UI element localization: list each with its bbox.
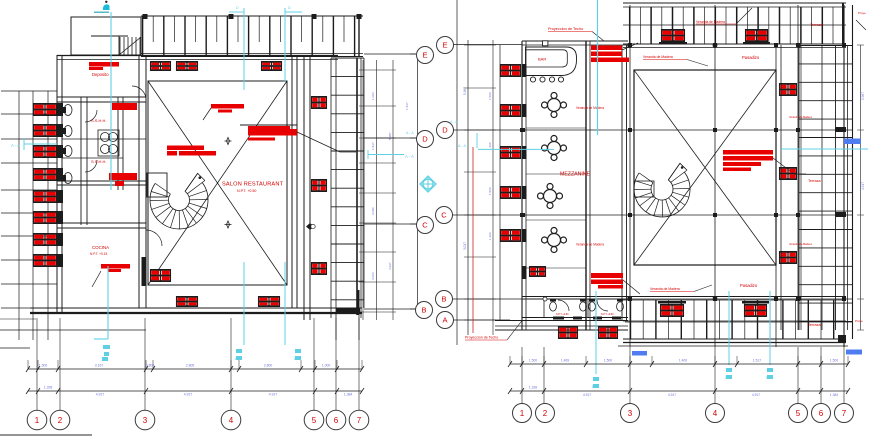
window symbol top row 3: [261, 61, 282, 71]
svg-text:3.000: 3.000: [371, 272, 375, 280]
right plan: spiral staircase: [634, 163, 690, 217]
svg-text:E: E: [422, 51, 427, 60]
right plan: cyan A-A horizontal: [458, 133, 554, 149]
salon center mark lower: [225, 221, 232, 228]
svg-text:6: 6: [819, 409, 824, 418]
top band veranda label: [696, 8, 752, 24]
left plan: building outer walls: [30, 55, 362, 315]
deposito red furniture bars: [89, 62, 119, 70]
right plan: mezzanine block walls: [495, 41, 628, 330]
svg-text:1.517: 1.517: [371, 142, 375, 150]
svg-text:Veranda de Madera: Veranda de Madera: [696, 20, 725, 24]
bottom cyan D-D marker 1: [235, 349, 242, 361]
top right proyeccion fragment: [856, 11, 866, 30]
mezzanine table 2: [542, 136, 567, 161]
left plan: cyan section line D-D right: [285, 6, 302, 345]
svg-text:BAR: BAR: [538, 57, 546, 62]
svg-text:A: A: [442, 316, 447, 325]
bubble D right stub: [454, 129, 523, 131]
bubble B left: [416, 302, 433, 319]
right plan window symbol lower left: [529, 266, 546, 277]
mezzanine table 3: [538, 184, 563, 209]
svg-text:N.P.T +0.80: N.P.T +0.80: [601, 313, 614, 316]
svg-text:3.080: 3.080: [371, 207, 375, 215]
grid bubble 7 (left plan): [349, 410, 369, 430]
svg-text:SALON RESTAURANT: SALON RESTAURANT: [222, 182, 284, 188]
svg-text:1.300: 1.300: [488, 142, 492, 150]
grid bubble 1 (left plan): [27, 410, 47, 430]
bottom page border fragment: [0, 434, 92, 436]
right plan: red dimension vertical: [472, 147, 474, 333]
right plan window symbol left col 5: [500, 229, 521, 242]
window symbol left col row 2: [33, 124, 57, 137]
left plan: cyan section line D-D left: [229, 6, 244, 345]
cocina label: [90, 245, 109, 256]
veranda de madera label 2: [576, 243, 604, 247]
left plan: grid drop lines: [37, 318, 359, 410]
bottom band window base bars: [658, 301, 769, 304]
mezzanine table 4: [542, 228, 567, 253]
svg-text:D: D: [442, 126, 448, 135]
row bubble E (left plan): [410, 53, 416, 55]
svg-text:3: 3: [143, 416, 148, 425]
left plan: door swing arcs: [85, 86, 162, 246]
window symbol left col row 5: [33, 190, 57, 203]
svg-text:4.917: 4.917: [388, 262, 392, 270]
east cyan A-A line: [781, 148, 868, 150]
svg-text:Proyeccion de Techo: Proyeccion de Techo: [548, 27, 583, 31]
window symbol below bathroom 1: [558, 326, 578, 339]
right wall window symbol 3: [779, 251, 797, 264]
svg-text:0.800: 0.800: [146, 364, 155, 368]
cocina cyan line: [94, 266, 110, 361]
right plan: bathroom block bottom: [495, 297, 628, 321]
bubble E right: [437, 37, 454, 54]
svg-text:1.328: 1.328: [44, 386, 53, 390]
right plan: bright blue highlight bars: [632, 139, 862, 356]
bubble B left stub: [410, 308, 416, 310]
east side dimension line: [857, 45, 865, 330]
right plan window symbol left col 3: [500, 146, 521, 159]
grid node marker row C on wall: [306, 223, 315, 230]
svg-text:1.000: 1.000: [371, 92, 375, 100]
svg-text:COCINA: COCINA: [92, 245, 109, 250]
svg-text:Veranda de Madera: Veranda de Madera: [643, 55, 673, 59]
svg-text:1.500: 1.500: [39, 364, 48, 368]
svg-text:N.P.T +0.80: N.P.T +0.80: [556, 313, 569, 316]
right dim chain 2 values: [529, 386, 838, 398]
services red bar lower: [109, 173, 137, 186]
right plan: cyan section bottom D-D 1: [725, 291, 732, 380]
svg-text:Pasadizo: Pasadizo: [742, 55, 760, 60]
svg-text:Veranda de Madera: Veranda de Madera: [650, 287, 680, 291]
dim chain 2 values: [44, 386, 353, 397]
top band window symbol 2: [745, 29, 768, 42]
svg-text:Proyeccion de Techo: Proyeccion de Techo: [465, 336, 498, 340]
right plan: proyeccion de techo top label: [548, 27, 604, 41]
right plan: pasadizo corridor west walls: [622, 45, 627, 320]
svg-text:1.469: 1.469: [561, 359, 569, 363]
svg-text:1.384: 1.384: [344, 393, 353, 397]
svg-text:1.517: 1.517: [405, 102, 409, 110]
right plan: central square with diagonals: [634, 70, 776, 265]
svg-text:Veranda de Madera: Veranda de Madera: [789, 115, 812, 119]
right plan: bottom red bar cluster: [591, 273, 640, 294]
right plan: main grid horizontals: [522, 130, 852, 322]
svg-text:C: C: [422, 221, 428, 230]
bathroom red npt labels: [556, 313, 614, 316]
right plan: top red bar cluster: [591, 43, 638, 62]
svg-text:Veranda de Madera: Veranda de Madera: [576, 106, 604, 110]
svg-text:Veranda de Madera: Veranda de Madera: [576, 243, 604, 247]
bubble E left: [417, 47, 434, 64]
grid bubble 1 (right plan): [513, 404, 532, 423]
bottom band window symbol 2: [744, 304, 767, 317]
cyan section A-A left label: [11, 138, 57, 150]
bottom cyan D-D marker 2: [294, 349, 301, 361]
right wall window symbol 2: [779, 167, 797, 180]
svg-text:D: D: [422, 135, 428, 144]
svg-text:D: D: [236, 6, 239, 10]
svg-text:1.517: 1.517: [753, 359, 761, 363]
right plan: middle red bar cluster: [723, 150, 806, 174]
svg-text:5: 5: [796, 409, 801, 418]
right plan: veranda bottom label: [650, 285, 712, 292]
svg-text:4.917: 4.917: [668, 393, 676, 397]
svg-text:1.500: 1.500: [604, 359, 612, 363]
left plan: salon walls: [139, 55, 310, 320]
svg-text:4.917: 4.917: [184, 393, 193, 397]
bottom cyan B-B marker: [102, 357, 108, 361]
svg-text:4.917: 4.917: [269, 393, 278, 397]
left plan: top deck band (terrace boardwalk): [141, 14, 363, 57]
left plan: cyan section line B (vertical at kitchen axis): [94, 1, 111, 190]
salon spiral landing rect: [147, 173, 167, 197]
right plan window symbol left col 4: [500, 186, 521, 199]
svg-text:1.384: 1.384: [830, 393, 838, 397]
svg-text:2.805: 2.805: [186, 364, 195, 368]
svg-text:A - A: A - A: [458, 144, 466, 148]
proyeccion de techo label (bottom left of right plan): [465, 321, 522, 341]
right plan: veranda west edge line: [499, 45, 501, 320]
right plan: bottom dimension chain 2: [508, 388, 850, 394]
window symbol left col row 1: [33, 103, 57, 116]
cyan A-A small labels middle: [406, 120, 458, 135]
svg-text:N.P.T. +0.50: N.P.T. +0.50: [237, 189, 256, 193]
window symbol top row 1: [150, 61, 171, 71]
left plan: right ladder strip (exterior stair): [331, 58, 364, 340]
right plan: main grid verticals: [630, 5, 844, 347]
svg-text:1.500: 1.500: [830, 359, 838, 363]
svg-text:3.167: 3.167: [95, 364, 104, 368]
svg-text:5.967: 5.967: [463, 87, 467, 95]
right wall window symbol 1: [779, 83, 797, 96]
svg-text:B: B: [421, 306, 426, 315]
veranda de madera label 1: [576, 106, 604, 110]
bubble D left: [417, 131, 434, 148]
right plan window symbol left col 2: [500, 104, 521, 117]
svg-text:7: 7: [842, 409, 847, 418]
bubble C right stub: [453, 214, 523, 216]
svg-text:Pasadizo: Pasadizo: [740, 283, 758, 288]
right plan: cyan section bottom B: [592, 291, 599, 389]
svg-text:1.300: 1.300: [488, 232, 492, 240]
svg-text:Terraza: Terraza: [810, 23, 824, 27]
bubble D left stub: [410, 137, 417, 139]
svg-text:1: 1: [35, 416, 40, 425]
svg-text:2: 2: [543, 409, 548, 418]
svg-text:A - A: A - A: [450, 120, 458, 124]
left plan: grid row lines to bubbles: [364, 54, 417, 309]
svg-text:S.S.H.H.: S.S.H.H.: [91, 159, 107, 164]
grid bubble 5 (right plan): [789, 404, 808, 423]
right plan: top terrace hatch band: [623, 3, 846, 48]
svg-text:N.P.T. +0.15: N.P.T. +0.15: [90, 252, 107, 256]
svg-text:2.800: 2.800: [264, 364, 273, 368]
svg-text:Proye: Proye: [858, 11, 866, 15]
window symbol left col row 8: [33, 254, 57, 267]
window symbol right wall 1: [311, 96, 327, 109]
svg-text:S.S.H.H.: S.S.H.H.: [91, 118, 107, 123]
svg-text:1.328: 1.328: [529, 386, 537, 390]
svg-text:A - A: A - A: [405, 154, 414, 159]
left plan: bottom dimension chain 1: [26, 360, 364, 372]
left plan: interior walls services wing: [57, 97, 146, 228]
right plan: bar counter: [526, 47, 577, 76]
grid bubble 5 (left plan): [304, 410, 324, 430]
window symbol right wall 2: [311, 179, 327, 192]
svg-text:4: 4: [229, 416, 234, 425]
window symbol bottom 1: [150, 269, 171, 282]
svg-text:Deposito: Deposito: [92, 72, 109, 77]
window symbol left col row 7: [33, 233, 57, 246]
right plan: cyan section vertical top: [597, 0, 599, 135]
bubble A right: [437, 312, 454, 329]
bubble B right: [436, 291, 453, 308]
cyan section A-A right label: [368, 150, 414, 159]
salon restaurant label: [222, 182, 284, 194]
salon red bar cluster 1: [203, 104, 244, 120]
right plan: bottom deck hatch band: [618, 296, 848, 346]
window symbol below bathroom 2: [598, 326, 618, 339]
left plan: right side dimension lines: [359, 54, 418, 320]
right dim chain 1 values: [529, 359, 838, 363]
svg-text:Proye: Proye: [855, 319, 863, 323]
salon center mark upper: [225, 138, 232, 145]
svg-text:1.000: 1.000: [322, 364, 331, 368]
svg-text:1.500: 1.500: [488, 92, 492, 100]
top band window symbol 1: [661, 29, 685, 42]
svg-text:2: 2: [58, 416, 63, 425]
svg-text:A - A: A - A: [11, 143, 20, 148]
right plan: left dimension verticals: [464, 40, 496, 335]
svg-text:Terraza: Terraza: [808, 323, 822, 327]
svg-text:C: C: [441, 211, 447, 220]
right plan: grid drop lines: [522, 347, 844, 404]
svg-text:D: D: [288, 6, 291, 10]
salon red bar cluster 2 (large): [240, 125, 356, 152]
svg-text:E: E: [442, 41, 447, 50]
grid bubble 3 (right plan): [621, 404, 640, 423]
svg-text:4: 4: [713, 409, 718, 418]
dim chain 1 values: [39, 364, 331, 368]
svg-text:1: 1: [520, 409, 525, 418]
bottom band window symbol 1: [660, 304, 684, 317]
svg-text:5.967: 5.967: [861, 92, 865, 100]
top band window base bars: [659, 42, 770, 45]
left wall piers: [57, 103, 63, 267]
right plan: cyan section bottom D-D 2: [766, 291, 773, 380]
grid bubble 2 (left plan): [50, 410, 70, 430]
cocina red counter bar: [92, 264, 130, 287]
svg-text:4.917: 4.917: [861, 182, 865, 190]
svg-text:Terraza: Terraza: [808, 179, 822, 183]
svg-text:A - A: A - A: [406, 131, 414, 135]
svg-text:1.500: 1.500: [488, 187, 492, 195]
grid bubble 6 (right plan): [812, 404, 831, 423]
bubble E right stub: [454, 44, 523, 46]
bubble C left stub: [410, 223, 417, 225]
svg-text:6: 6: [334, 416, 339, 425]
right plan: east terrace ladder strip: [781, 5, 853, 339]
svg-text:5: 5: [312, 416, 317, 425]
svg-text:1.400: 1.400: [679, 359, 687, 363]
right plan: veranda top-left label: [643, 55, 708, 66]
bar stools: [530, 77, 563, 82]
svg-text:7: 7: [357, 416, 362, 425]
left plan: bottom dimension chain 2: [26, 388, 364, 394]
window symbol top row 2: [176, 61, 198, 71]
window symbol left col row 3: [33, 145, 57, 158]
left plan: salon inner square with diagonals: [148, 81, 287, 285]
window symbol bottom 2: [176, 296, 198, 307]
bubble D right: [437, 122, 454, 139]
svg-text:1.500: 1.500: [529, 359, 537, 363]
services red bar upper: [112, 103, 137, 110]
bubble A right stub: [454, 319, 511, 321]
salon red bar cluster 3: [167, 146, 216, 156]
window symbol bottom 3: [258, 296, 280, 307]
bubble B right stub: [453, 298, 523, 300]
right plan left dim texts: [463, 87, 492, 250]
grid bubble 7 (right plan): [835, 404, 854, 423]
right side dim texts: [371, 92, 409, 280]
window symbol left col row 4: [33, 168, 57, 181]
svg-text:3: 3: [628, 409, 633, 418]
svg-text:3.017: 3.017: [463, 242, 467, 250]
window symbol left col row 6: [33, 211, 57, 224]
svg-text:5.987: 5.987: [388, 132, 392, 140]
middle long vertical grid line: [456, 0, 458, 345]
grid bubble 6 (left plan): [326, 410, 346, 430]
left plan: left margin dimension lines: [0, 91, 146, 348]
right plan window symbol left col 1: [500, 64, 521, 77]
mezzanine left wall piers: [522, 64, 527, 279]
grid bubble 2 (right plan): [536, 404, 555, 423]
grid bubble 4 (right plan): [706, 404, 725, 423]
svg-text:4.917: 4.917: [752, 393, 760, 397]
middle cyan diamond compass marker: [420, 176, 436, 192]
right plan: bottom dimension chain 1: [508, 356, 850, 367]
svg-text:4.917: 4.917: [96, 393, 105, 397]
left plan: toilets and sinks in S.S.H.H.: [63, 105, 119, 184]
bubble C left: [417, 217, 434, 234]
grid node squares: [520, 41, 846, 301]
left plan: spiral staircase: [150, 173, 208, 229]
svg-text:B: B: [441, 295, 446, 304]
bubble C right: [436, 207, 453, 224]
grid bubble 3 (left plan): [135, 410, 155, 430]
window symbol right wall 3: [311, 262, 327, 275]
mezzanine table 1: [542, 93, 567, 118]
grid bubble 4 (left plan): [221, 410, 241, 430]
svg-text:MEZZANINE: MEZZANINE: [560, 172, 591, 178]
svg-text:Veranda de Madera: Veranda de Madera: [789, 242, 812, 246]
left plan: top-left room with stair: [71, 17, 141, 55]
svg-text:4.917: 4.917: [583, 393, 591, 397]
